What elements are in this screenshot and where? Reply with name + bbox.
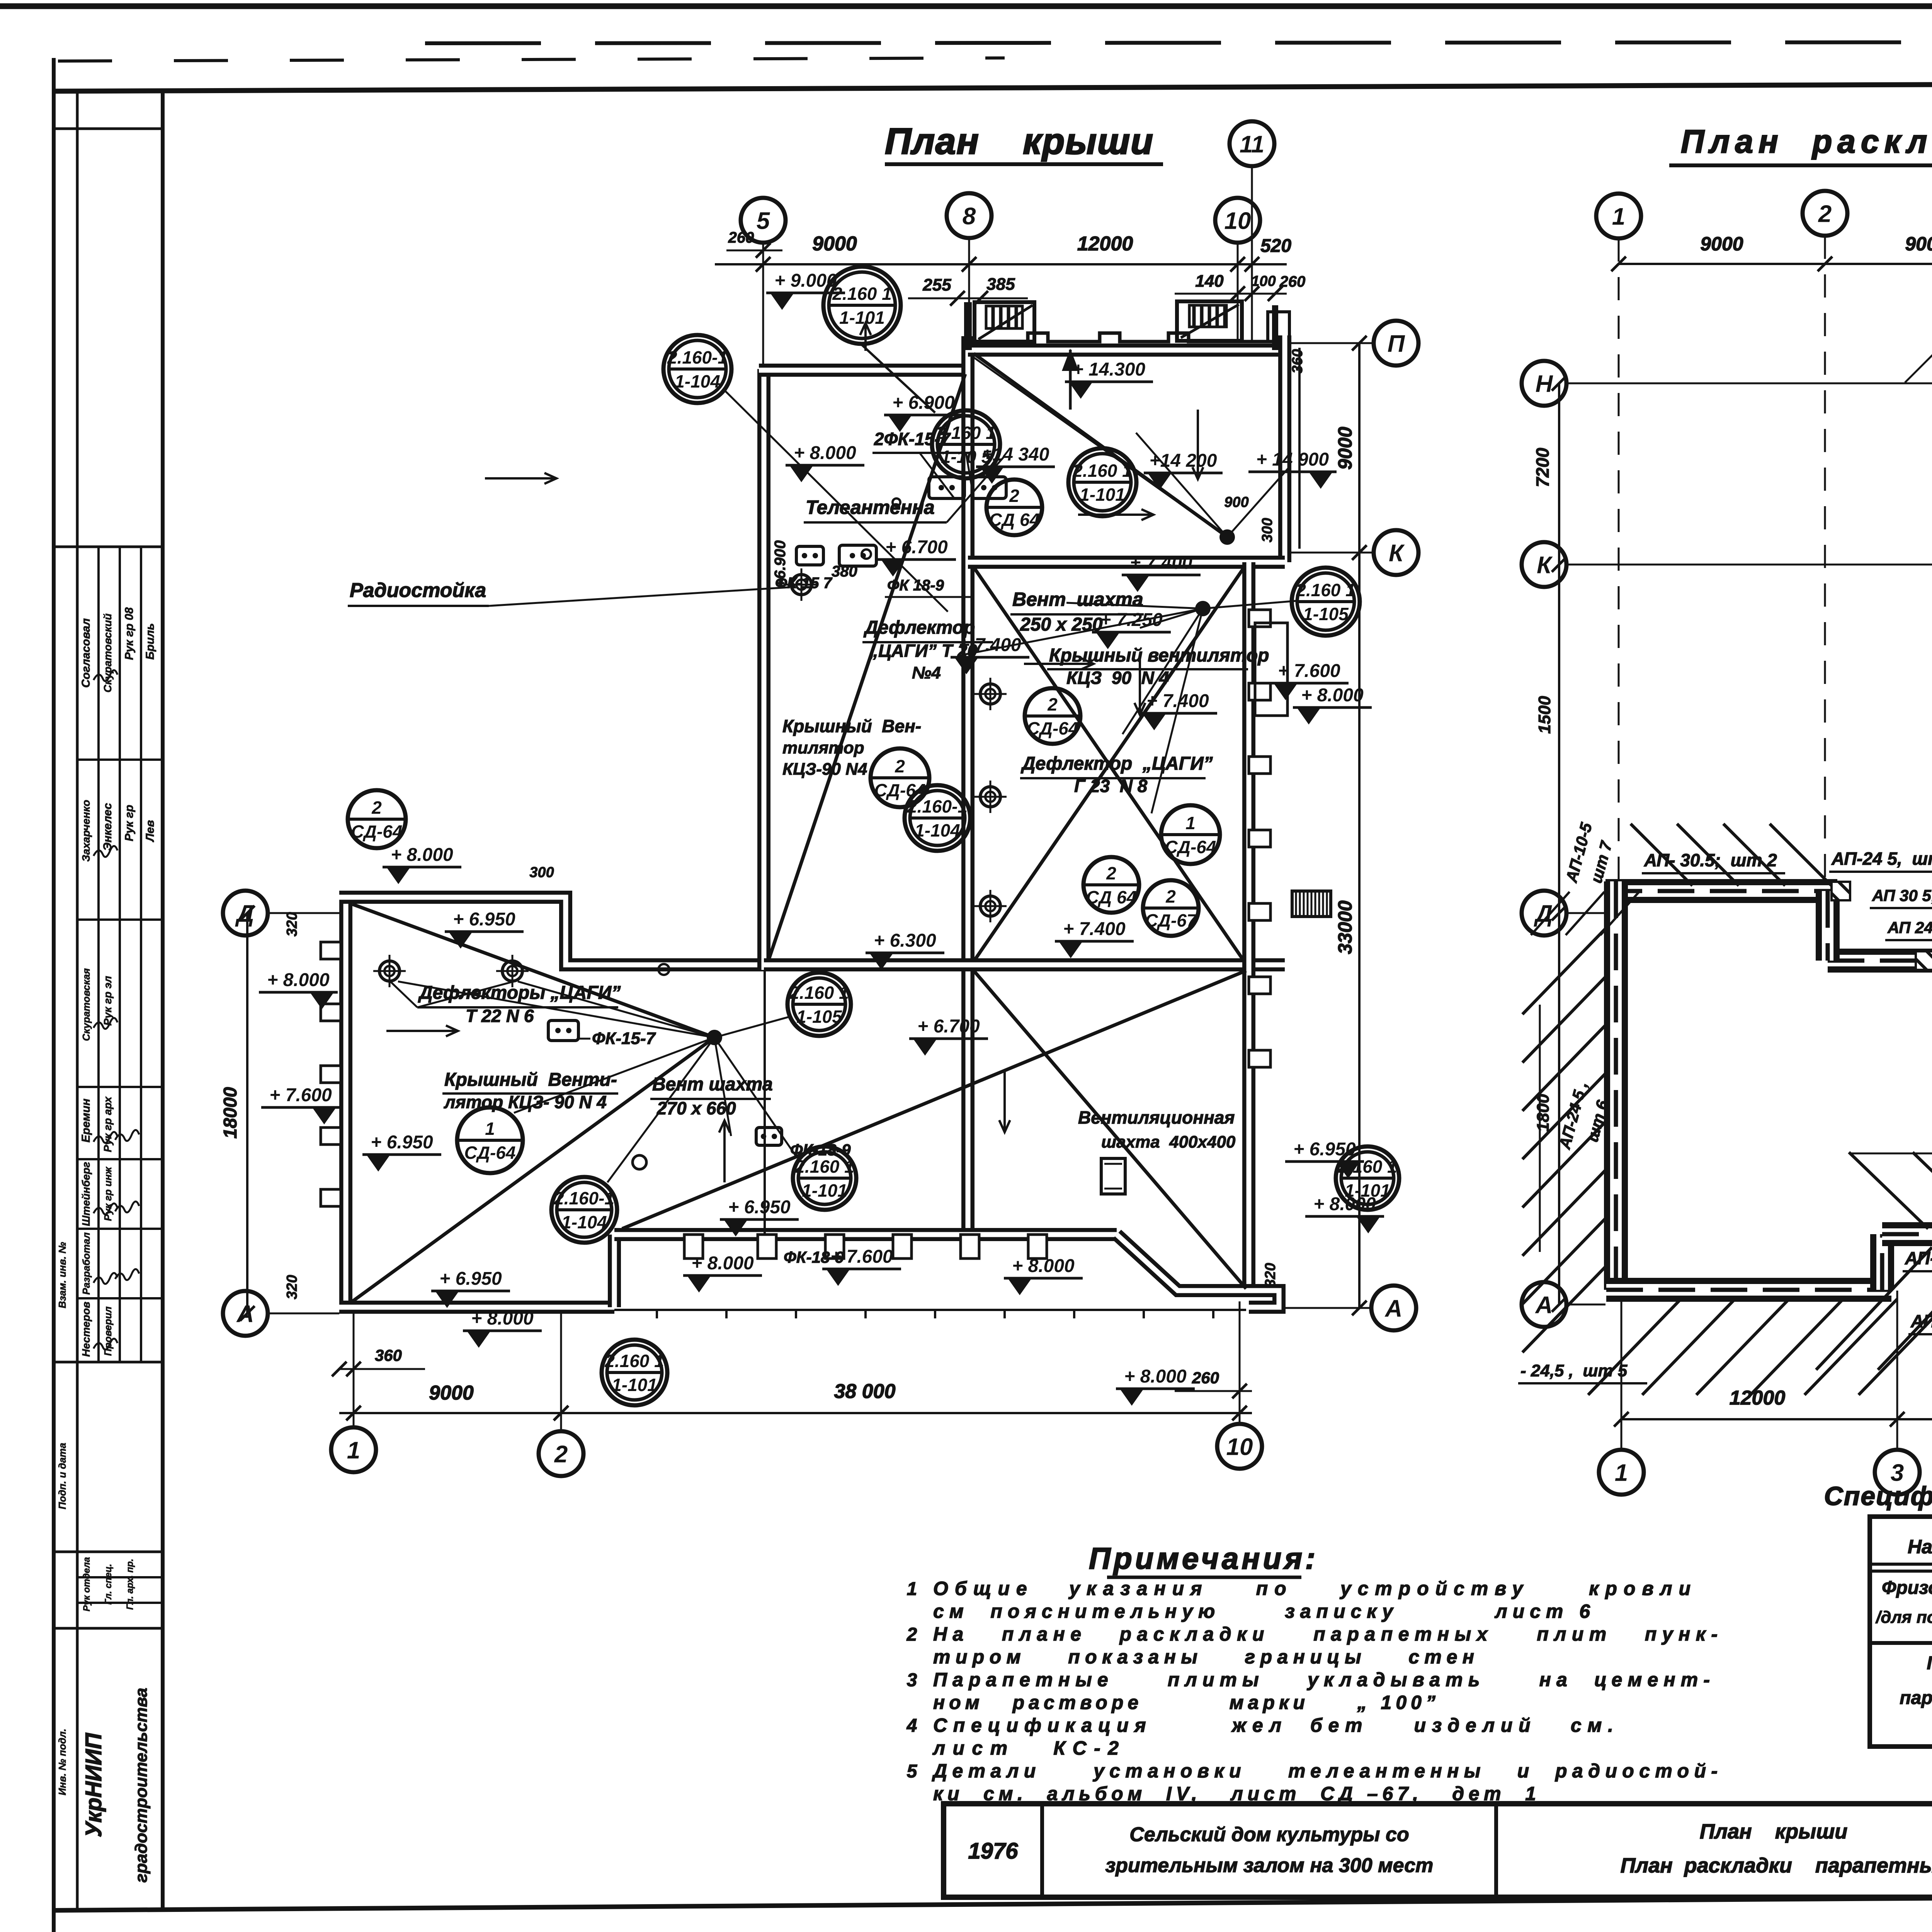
- svg-text:градостроительства: градостроительства: [132, 1688, 151, 1883]
- roof deflector symbol: [974, 678, 1007, 710]
- top dimension line: [715, 263, 1287, 265]
- diagonal lower-left 1: [352, 904, 714, 1037]
- svg-text:1-101: 1-101: [1080, 485, 1125, 505]
- svg-text:+ 7.400: + 7.400: [1130, 553, 1192, 573]
- svg-text:320: 320: [284, 1275, 300, 1299]
- svg-text:1-104: 1-104: [915, 820, 960, 840]
- svg-text:1-101: 1-101: [1345, 1180, 1390, 1201]
- svg-text:Нестеров: Нестеров: [80, 1301, 92, 1357]
- row line K: [1291, 552, 1372, 554]
- grid axis circle 11: [1230, 121, 1274, 166]
- level mark + 6.950: [445, 909, 524, 949]
- wall: stage top wall: [968, 344, 1287, 357]
- level mark + 14.300: [1065, 359, 1153, 399]
- level mark +14 340: [976, 444, 1055, 484]
- svg-text:/для покр Вент канал/: /для покр Вент канал/: [1875, 1608, 1932, 1627]
- svg-text:900: 900: [1224, 494, 1248, 510]
- svg-text:Гл. спец.: Гл. спец.: [103, 1564, 114, 1605]
- svg-text:АП-30 5, шт 1: АП-30 5, шт 1: [1910, 1311, 1932, 1331]
- parapet band: porch step: [1870, 1234, 1894, 1290]
- svg-text:360: 360: [375, 1346, 402, 1364]
- svg-text:Телеантенна: Телеантенна: [806, 497, 935, 518]
- svg-text:2.160 1: 2.160 1: [604, 1351, 664, 1371]
- detail reference circle 2/СД 64: [1083, 857, 1139, 913]
- dim 260 near axis 5: [726, 250, 782, 252]
- grid axis circle К: [1374, 530, 1418, 575]
- svg-text:„ЦАГИ” Т 20: „ЦАГИ” Т 20: [869, 641, 977, 661]
- slope arrow: [1078, 514, 1153, 516]
- svg-text:1976: 1976: [968, 1838, 1018, 1864]
- stage parapet vent box 2: [1177, 301, 1242, 341]
- level mark + 8.000: [1293, 685, 1372, 724]
- level mark + 6.300: [866, 930, 944, 970]
- wall: lower-left rectangle left side: [339, 893, 352, 1307]
- grid axis circle Н: [1522, 361, 1566, 406]
- svg-text:Штейнберг: Штейнберг: [80, 1162, 92, 1226]
- svg-text:250 х 250: 250 х 250: [1020, 614, 1103, 635]
- axis stem 1 bottom: [353, 1311, 355, 1427]
- svg-text:Взам. инв. №: Взам. инв. №: [56, 1242, 68, 1308]
- svg-text:2: 2: [1165, 886, 1176, 906]
- svg-text:+ 8.000: + 8.000: [691, 1253, 754, 1274]
- title block frame: [944, 1804, 1932, 1897]
- level mark + 8.000: [683, 1253, 762, 1293]
- stage parapet right post: [1272, 305, 1278, 350]
- svg-text:Дефлектор: Дефлектор: [863, 617, 975, 638]
- svg-text:260: 260: [1279, 273, 1306, 290]
- level mark + 7.400: [951, 635, 1029, 674]
- level mark + 6.950: [362, 1132, 441, 1172]
- svg-text:520: 520: [1260, 236, 1291, 256]
- svg-text:9000: 9000: [1334, 427, 1356, 469]
- vent stone symbol: [929, 477, 964, 498]
- svg-text:Дефлектор „ЦАГИ”: Дефлектор „ЦАГИ”: [1020, 753, 1213, 774]
- detail reference circle 2 160 1/1-10 5: [932, 410, 1000, 478]
- hatch below lower-left bottom band: [1588, 1299, 1681, 1395]
- level mark + 7.400: [1055, 919, 1134, 958]
- axis stem 11: [1251, 167, 1253, 340]
- axis stem 10 bottom: [1239, 1301, 1241, 1424]
- svg-text:План раскладки парапетных п: План раскладки парапетных плит: [1681, 123, 1932, 160]
- svg-text:П: П: [1388, 330, 1405, 357]
- stage parapet left post: [964, 302, 972, 350]
- sidebar inner vertical: [76, 91, 79, 1910]
- svg-text:+ 6.300: + 6.300: [874, 930, 936, 951]
- svg-text:КЦЗ 90 N 4: КЦЗ 90 N 4: [1066, 668, 1169, 688]
- small dims near axis 8: [908, 298, 1028, 299]
- svg-text:шахта 400х400: шахта 400х400: [1101, 1133, 1236, 1151]
- svg-text:1-101: 1-101: [802, 1180, 847, 1201]
- hatch left of lower-left rect: [1522, 927, 1607, 1014]
- level mark + 6.900: [884, 393, 963, 432]
- slope arrow: [723, 1121, 726, 1182]
- svg-text:2.160-1: 2.160-1: [667, 347, 728, 367]
- svg-text:1800: 1800: [1534, 1094, 1553, 1132]
- level mark + 6.950: [720, 1197, 799, 1236]
- tele antenna small dot: [893, 498, 900, 506]
- svg-text:А: А: [236, 1301, 254, 1327]
- svg-text:СД-64: СД-64: [1027, 718, 1078, 738]
- svg-text:Гл. арх. пр.: Гл. арх. пр.: [125, 1559, 135, 1610]
- hatch above porch band: [1849, 1152, 1928, 1229]
- svg-text:10: 10: [1226, 1434, 1253, 1460]
- svg-text:СД-64: СД-64: [1165, 837, 1216, 857]
- svg-text:Плиты: Плиты: [1927, 1653, 1932, 1673]
- hatch boundary left: [1539, 1005, 1541, 1252]
- svg-text:1-104: 1-104: [561, 1212, 607, 1232]
- left dimension line of left plan: [246, 913, 248, 1313]
- svg-text:ФК-15-7: ФК-15-7: [592, 1029, 656, 1048]
- parapet band: step axis 2: [1816, 891, 1840, 961]
- detail reference circle 1/СД-64: [457, 1107, 523, 1173]
- diagonal middle section 2: [974, 567, 1244, 961]
- slope arrow: [864, 323, 867, 351]
- level mark + 8.000: [786, 443, 864, 482]
- roof deflector symbol: [785, 568, 818, 601]
- svg-text:9000: 9000: [1700, 233, 1743, 255]
- svg-text:Захарченко: Захарченко: [80, 800, 92, 862]
- leader lines from lower-left dot: [714, 1016, 791, 1037]
- svg-text:Рук отдела: Рук отдела: [82, 1557, 92, 1612]
- svg-text:АП-24 5: шт 7: АП-24 5: шт 7: [1905, 1248, 1932, 1268]
- dim 360 bottom left: [339, 1368, 425, 1370]
- grid axis circle 10: [1215, 198, 1260, 243]
- svg-text:+ 8.000: + 8.000: [391, 845, 453, 865]
- svg-text:+ 7.400: + 7.400: [1146, 691, 1209, 711]
- slope arrow: [1003, 1070, 1006, 1132]
- svg-text:Д: Д: [1534, 900, 1553, 927]
- frame top border: [54, 82, 1932, 91]
- level mark + 6.700: [909, 1016, 988, 1056]
- vent stone symbol: [972, 477, 1006, 498]
- grid axis circle 1: [1599, 1450, 1644, 1495]
- offset line right of stage: [1298, 348, 1301, 549]
- svg-text:+ 7.600: + 7.600: [1278, 661, 1340, 681]
- level mark + 8.000: [1116, 1366, 1195, 1406]
- grid axis circle 1: [331, 1427, 376, 1472]
- svg-text:Радиостойка: Радиостойка: [350, 579, 486, 602]
- svg-text:СД-67: СД-67: [1145, 910, 1197, 930]
- grid axis circle А: [223, 1291, 268, 1336]
- detail reference circle 2/СД-67: [1143, 880, 1199, 936]
- vent stone symbol: [756, 1128, 782, 1145]
- wall: lower-left rectangle bottom: [339, 1301, 614, 1314]
- svg-text:1: 1: [1615, 1459, 1628, 1486]
- svg-text:2.160 1: 2.160 1: [794, 1156, 854, 1177]
- svg-text:ФК-15 7: ФК-15 7: [775, 575, 833, 592]
- svg-text:ФК-18-9: ФК-18-9: [784, 1248, 844, 1266]
- svg-text:33000: 33000: [1334, 900, 1356, 954]
- svg-text:План крыши: План крыши: [1700, 1820, 1848, 1843]
- grid axis circle Д: [1522, 891, 1566, 935]
- svg-text:5: 5: [757, 207, 770, 234]
- hatch above lower-left top band: [1631, 824, 1692, 886]
- roof deflector symbol: [496, 955, 529, 987]
- wall: top of upper-left block: [759, 364, 968, 377]
- white box right of parapet: [1268, 312, 1289, 342]
- roof deflector symbol: [373, 955, 406, 987]
- svg-text:2.160 1: 2.160 1: [1072, 461, 1132, 481]
- svg-text:- 24,5 , шт 5: - 24,5 , шт 5: [1520, 1361, 1628, 1380]
- svg-text:Разработал: Разработал: [80, 1232, 92, 1294]
- level mark + 14 900: [1248, 449, 1337, 489]
- svg-text:А: А: [1384, 1295, 1403, 1322]
- svg-text:Вентиляционная: Вентиляционная: [1078, 1107, 1235, 1128]
- svg-text:Д: Д: [235, 900, 254, 927]
- vent stone symbol: [796, 546, 823, 565]
- level mark + 7.600: [1270, 661, 1349, 700]
- svg-text:10: 10: [1225, 207, 1251, 234]
- svg-text:1-105: 1-105: [796, 1007, 842, 1027]
- level mark + 9.000: [766, 270, 845, 310]
- svg-text:320: 320: [284, 912, 300, 936]
- level mark + 8.000: [1004, 1256, 1083, 1295]
- svg-text:2: 2: [895, 756, 905, 776]
- leader lines from mid-right dot: [1203, 601, 1296, 609]
- detail reference circle 2.160-1/1-104: [663, 335, 731, 403]
- svg-text:+ 6.700: + 6.700: [917, 1016, 980, 1037]
- svg-text:СД-64: СД-64: [351, 821, 403, 842]
- svg-text:+ 8.000: + 8.000: [794, 443, 856, 463]
- bottom dimension line right plan: [1621, 1418, 1932, 1420]
- grid axis circle 3: [1875, 1450, 1920, 1495]
- level mark + 7.600: [822, 1247, 901, 1286]
- grid axis circle 2: [1803, 191, 1847, 236]
- svg-text:1500: 1500: [1535, 696, 1554, 734]
- svg-text:Фризовые камни: Фризовые камни: [1882, 1578, 1932, 1598]
- grid axis circle 1: [1596, 194, 1641, 238]
- grid axis circle 2: [539, 1431, 583, 1476]
- hatch top-left corner group: [1531, 892, 1570, 935]
- level mark + 6.950: [1285, 1139, 1364, 1179]
- axis stems right plan: [1618, 238, 1620, 881]
- svg-text:Еремин: Еремин: [80, 1099, 92, 1143]
- svg-text:Спецификация жел бет: Спецификация жел бет изделий см.: [933, 1714, 1613, 1736]
- svg-text:+ 6.700: + 6.700: [885, 537, 948, 558]
- sidebar signature squiggles: [94, 670, 117, 681]
- svg-text:Инв. № подл.: Инв. № подл.: [56, 1729, 68, 1796]
- grid axis circle А: [1522, 1282, 1566, 1327]
- stage parapet vent box 1: [975, 302, 1034, 342]
- svg-text:Подп. и дата: Подп. и дата: [56, 1443, 68, 1509]
- svg-text:План крыши: План крыши: [885, 121, 1155, 162]
- row lines right plan left: [1566, 383, 1932, 384]
- wall: stage right (axis 10): [1278, 335, 1291, 562]
- svg-text:2: 2: [906, 1624, 917, 1645]
- wall: porch diagonal end: [1117, 1235, 1249, 1291]
- level mark + 6.700: [877, 537, 956, 577]
- parapet band: porch long band: [1882, 1222, 1932, 1246]
- level mark +14 200: [1144, 451, 1223, 490]
- svg-text:+ 7.600: + 7.600: [269, 1085, 332, 1105]
- svg-text:Рук гр арх: Рук гр арх: [102, 1096, 114, 1152]
- svg-text:2.160-1: 2.160-1: [554, 1188, 614, 1208]
- level mark + 7.250: [1092, 610, 1171, 649]
- roof deflector symbol: [974, 890, 1007, 922]
- wall: porch step left: [608, 1235, 621, 1307]
- svg-text:+ 6.950: + 6.950: [453, 909, 515, 930]
- dim 260 bottom right: [1175, 1390, 1252, 1392]
- svg-text:+14 200: +14 200: [1150, 451, 1217, 471]
- svg-text:АП 30 5; шт2: АП 30 5; шт2: [1872, 886, 1932, 905]
- hatch below porch band: [1816, 1247, 1932, 1370]
- svg-text:Крышный вентилятор: Крышный вентилятор: [1049, 645, 1269, 666]
- sidebar signature table: [97, 547, 100, 1362]
- svg-text:1: 1: [485, 1119, 495, 1139]
- grid axis circle А: [1371, 1286, 1416, 1330]
- svg-text:Сельский дом культуры со: Сельский дом культуры со: [1129, 1823, 1409, 1846]
- grid axis circle К: [1522, 542, 1566, 587]
- svg-text:1: 1: [1612, 203, 1625, 230]
- svg-text:Вент шахта: Вент шахта: [652, 1074, 773, 1095]
- svg-text:18000: 18000: [220, 1087, 241, 1139]
- svg-text:+ 8.000: + 8.000: [1012, 1256, 1075, 1276]
- wall: row K: [968, 556, 1285, 569]
- svg-text:парапетные: парапетные: [1900, 1688, 1932, 1708]
- svg-text:АП 24 5, шт2: АП 24 5, шт2: [1887, 918, 1932, 937]
- svg-text:255: 255: [922, 276, 951, 294]
- svg-text:1-101: 1-101: [839, 308, 885, 328]
- vent stone symbol: [548, 1020, 578, 1041]
- svg-text:Согласовал: Согласовал: [80, 618, 92, 688]
- svg-text:2.160 1: 2.160 1: [1337, 1156, 1397, 1177]
- svg-text:СД-64: СД-64: [464, 1143, 516, 1163]
- diagonal lower-left 2: [352, 1037, 714, 1301]
- svg-text:План раскладки парапетных: План раскладки парапетных плит: [1621, 1854, 1932, 1877]
- right dimension line of left plan: [1358, 343, 1361, 1308]
- grid axis circle П: [1374, 321, 1418, 366]
- svg-text:12000: 12000: [1730, 1387, 1786, 1409]
- svg-text:2: 2: [1047, 694, 1058, 714]
- svg-text:Скуратовская: Скуратовская: [80, 968, 92, 1041]
- top dimension line right plan: [1619, 263, 1932, 265]
- scan artifact dashed line upper: [425, 42, 1932, 43]
- svg-text:360: 360: [1289, 349, 1306, 373]
- grid axis circle Д: [223, 891, 268, 935]
- svg-text:385: 385: [986, 275, 1015, 294]
- detail reference circle 2/СД-64: [1025, 688, 1080, 744]
- svg-text:100: 100: [1251, 273, 1276, 289]
- svg-text:260: 260: [1192, 1369, 1219, 1387]
- svg-text:38 000: 38 000: [834, 1380, 895, 1403]
- svg-text:К: К: [1389, 540, 1405, 566]
- svg-text:2: 2: [371, 798, 382, 818]
- axis stem 2 bottom: [560, 1311, 562, 1431]
- svg-text:+ 6.950: + 6.950: [728, 1197, 791, 1218]
- svg-text:СД 64: СД 64: [1086, 887, 1136, 907]
- svg-text:КЦЗ-90 N4: КЦЗ-90 N4: [782, 760, 867, 779]
- svg-text:Рук гр 08: Рук гр 08: [123, 607, 136, 660]
- svg-text:Вент шахта: Вент шахта: [1012, 588, 1143, 610]
- detail reference circle 2.160 1/1-101: [602, 1340, 667, 1405]
- detail reference circle 2.160 1/1-105: [1292, 568, 1360, 636]
- svg-text:1-10 5: 1-10 5: [941, 447, 992, 467]
- svg-text:+ 6.950: + 6.950: [371, 1132, 433, 1153]
- sidebar divider vertical: [161, 91, 165, 1910]
- detail reference circle 2.160-1/1-104: [551, 1177, 617, 1243]
- detail reference circle 1/СД-64: [1161, 805, 1220, 864]
- bottom dimension line of left plan: [339, 1412, 1252, 1414]
- detail reference circle 2.160 1/1-101: [793, 1146, 856, 1210]
- svg-text:12000: 12000: [1077, 233, 1133, 255]
- svg-text:лятор КЦЗ- 90 N 4: лятор КЦЗ- 90 N 4: [444, 1092, 607, 1112]
- axis stem 5: [762, 243, 764, 370]
- svg-text:7200: 7200: [1532, 447, 1553, 487]
- svg-text:+ 14 900: + 14 900: [1256, 449, 1329, 470]
- slope arrow: [1139, 657, 1141, 715]
- svg-text:+ 8.000: + 8.000: [267, 970, 330, 990]
- grid axis circle 10: [1217, 1424, 1262, 1469]
- svg-text:9000: 9000: [1905, 233, 1932, 255]
- junction dot mid-right: [1195, 601, 1211, 616]
- level mark + 8.000: [383, 845, 461, 884]
- row line D: [269, 912, 339, 914]
- svg-text:1-101: 1-101: [612, 1375, 657, 1395]
- level mark + 8.000: [463, 1308, 542, 1348]
- svg-text:320: 320: [1262, 1263, 1279, 1287]
- level mark + 8.000: [1305, 1194, 1384, 1233]
- svg-text:1: 1: [1185, 813, 1196, 833]
- svg-text:Энкелес: Энкелес: [101, 803, 114, 851]
- spec table grid: [1870, 1517, 1932, 1747]
- junction dot stage: [1219, 529, 1235, 545]
- small circle vent: [633, 1155, 646, 1169]
- svg-text:9000: 9000: [429, 1382, 474, 1404]
- svg-text:2: 2: [554, 1441, 568, 1468]
- svg-text:9000: 9000: [812, 233, 857, 255]
- svg-text:УкрНИИП: УкрНИИП: [81, 1733, 106, 1837]
- small hatched plates in cross band: [1916, 951, 1932, 970]
- grid axis circle 5: [741, 198, 786, 243]
- svg-text:СД 64: СД 64: [989, 510, 1039, 530]
- svg-text:А: А: [1535, 1292, 1553, 1318]
- svg-text:2: 2: [1009, 486, 1019, 506]
- svg-text:СД-64: СД-64: [874, 780, 926, 800]
- diagonal lower-right 2: [974, 971, 1246, 1289]
- svg-text:+ 14.300: + 14.300: [1073, 359, 1145, 380]
- small dims near axis 10: [1175, 293, 1287, 295]
- svg-text:140: 140: [1195, 272, 1224, 291]
- svg-text:+ 8.000: + 8.000: [1124, 1366, 1187, 1387]
- slope arrow: [386, 1030, 458, 1032]
- external stair hatch: [1292, 891, 1331, 917]
- svg-text:3: 3: [907, 1670, 917, 1690]
- wall: lower-left rectangle top with step: [339, 897, 764, 965]
- svg-text:+ 7.250: + 7.250: [1100, 610, 1163, 630]
- parapet band: cross band row 2486: [1828, 949, 1932, 973]
- level arrow +14.300: [1069, 350, 1072, 410]
- svg-text:АП- 30.5; шт 2: АП- 30.5; шт 2: [1644, 850, 1777, 870]
- svg-text:2.160 1: 2.160 1: [1296, 580, 1355, 600]
- porch bottom slab edge: [614, 1309, 1246, 1311]
- right edge lower piece: [1249, 1291, 1279, 1307]
- svg-text:Крышный Венти-: Крышный Венти-: [444, 1070, 617, 1090]
- svg-text:К: К: [1537, 552, 1553, 578]
- axis stem 10: [1237, 243, 1239, 340]
- svg-text:2.160 1: 2.160 1: [789, 983, 849, 1003]
- detail reference circle 2/СД-64: [348, 790, 406, 848]
- wall pilasters left side: [321, 942, 341, 959]
- svg-text:АП-24 5, шт 1: АП-24 5, шт 1: [1831, 849, 1932, 869]
- svg-text:300: 300: [1259, 518, 1276, 542]
- wall: long middle wall row 2497: [764, 958, 1285, 971]
- wall pilasters right side: [1249, 610, 1270, 627]
- svg-text:11: 11: [1240, 131, 1264, 158]
- svg-text:Наименование: Наименование: [1908, 1536, 1932, 1558]
- slope arrow: [485, 477, 556, 480]
- svg-text:1-105: 1-105: [1303, 604, 1349, 624]
- row line A right: [1254, 1307, 1370, 1309]
